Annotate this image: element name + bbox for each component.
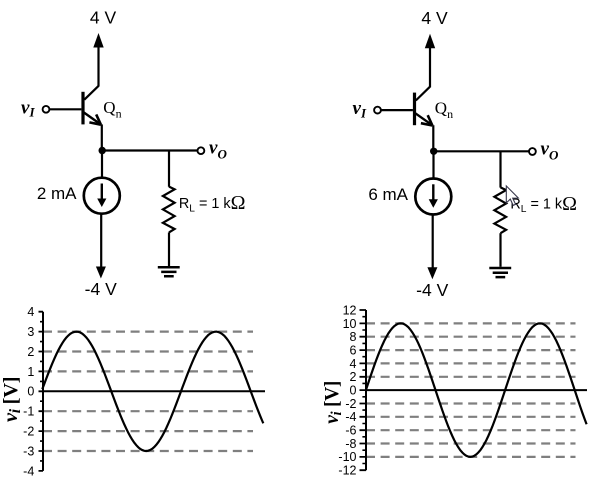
wire resistor to ground: [168, 232, 170, 266]
current source arrowhead: [429, 199, 438, 208]
current source arrowhead: [97, 199, 106, 208]
wire node to current source: [432, 151, 434, 179]
wire collector supply arrow: [429, 46, 431, 88]
dashed gridline -2 V: [366, 402, 576, 404]
svg-text:-10: -10: [338, 450, 356, 464]
svg-text:-4 V: -4 V: [416, 280, 448, 300]
svg-text:Qn: Qn: [103, 98, 121, 121]
svg-text:2: 2: [350, 370, 357, 384]
svg-text:vI: vI: [353, 98, 367, 120]
transistor Q emitter arrowhead barbs: [89, 114, 101, 124]
svg-text:-4: -4: [345, 410, 356, 424]
svg-text:-2: -2: [345, 397, 356, 411]
right emitter-follower circuit: [353, 8, 577, 300]
input terminal circle vI: [43, 106, 50, 113]
wire node to current source: [101, 151, 103, 179]
resistor RL zigzag: [494, 187, 506, 233]
y-axis label vi [V]: [0, 377, 24, 422]
svg-text:RL = 1 kΩ: RL = 1 kΩ: [510, 193, 577, 215]
x-axis zero line: [366, 389, 587, 391]
dashed gridline +1 V: [43, 370, 253, 372]
svg-text:4: 4: [350, 357, 357, 371]
svg-text:2 mA: 2 mA: [37, 184, 77, 203]
left input waveform graph: [0, 305, 265, 478]
svg-text:RL = 1 kΩ: RL = 1 kΩ: [179, 192, 246, 214]
svg-text:10: 10: [343, 317, 357, 331]
node junction dot: [99, 147, 106, 154]
svg-text:-8: -8: [345, 437, 356, 451]
svg-text:4: 4: [27, 305, 34, 319]
svg-text:vI: vI: [21, 97, 35, 119]
svg-text:vO: vO: [541, 138, 559, 162]
wire collector supply arrow: [97, 45, 99, 87]
svg-text:vi [V]: vi [V]: [322, 381, 345, 424]
right input waveform graph: [322, 303, 587, 477]
mouse cursor pointer: [506, 186, 518, 206]
wire current source to -4V: [100, 213, 102, 267]
node junction dot: [430, 148, 437, 155]
svg-text:3: 3: [27, 325, 34, 339]
svg-text:vO: vO: [209, 138, 227, 162]
current source arrow shaft: [432, 184, 434, 201]
dashed gridline +6 V: [366, 349, 576, 351]
transistor Q collector diagonal: [84, 86, 98, 100]
wire node to output: [102, 149, 197, 151]
svg-text:4 V: 4 V: [90, 7, 117, 27]
svg-text:2: 2: [27, 345, 34, 359]
svg-text:4 V: 4 V: [421, 8, 448, 28]
wire current source to -4V: [432, 214, 434, 268]
svg-text:-2: -2: [23, 425, 34, 439]
svg-text:-1: -1: [23, 405, 34, 419]
svg-text:6: 6: [350, 343, 357, 357]
dashed gridline +3 V: [43, 331, 253, 333]
svg-text:Qn: Qn: [435, 99, 453, 122]
ground symbol: [489, 268, 511, 277]
arrowhead down to -4V: [96, 267, 106, 279]
sine waveform vi: [42, 332, 263, 451]
wire resistor to ground: [499, 233, 501, 267]
transistor Q emitter arrowhead barbs: [421, 115, 433, 125]
dashed gridline +2 V: [366, 376, 576, 378]
x-axis zero line: [43, 390, 265, 392]
transistor Q emitter diagonal: [415, 113, 432, 125]
transistor Q base bar: [413, 93, 416, 126]
wire base: [50, 108, 82, 110]
left emitter-follower circuit: [21, 7, 245, 299]
y-axis major ticks: [360, 310, 367, 470]
svg-text:0: 0: [350, 384, 357, 398]
dashed gridline +2 V: [43, 350, 253, 352]
input terminal circle vI: [374, 107, 381, 114]
wire emitter to node: [101, 124, 103, 151]
svg-text:0: 0: [27, 385, 34, 399]
sine waveform vi: [366, 323, 586, 457]
current source arrow shaft: [101, 184, 103, 201]
transistor Q base bar: [81, 92, 84, 125]
ground symbol: [158, 267, 180, 276]
dashed gridline -6 V: [366, 429, 576, 431]
dashed gridline -10 V: [366, 456, 576, 458]
transistor Q emitter diagonal: [84, 112, 101, 124]
svg-text:8: 8: [350, 330, 357, 344]
dashed gridline -2 V: [43, 430, 253, 432]
dashed gridline +4 V: [366, 362, 576, 364]
svg-text:-4: -4: [23, 464, 34, 478]
output terminal circle vO: [529, 148, 536, 155]
wire node to output: [434, 150, 529, 152]
dashed gridline -3 V: [43, 450, 253, 452]
y-axis minor ticks: [362, 317, 366, 464]
y-axis major ticks: [39, 312, 44, 471]
dashed gridline -1 V: [43, 410, 253, 412]
svg-text:-12: -12: [338, 464, 356, 478]
svg-text:12: 12: [343, 303, 357, 317]
svg-text:-3: -3: [23, 444, 34, 458]
resistor RL zigzag: [163, 187, 175, 233]
wire output to resistor RL: [168, 151, 170, 187]
y-axis label vi [V]: [322, 381, 345, 424]
y-axis line: [42, 312, 44, 471]
arrowhead down to -4V: [427, 267, 437, 279]
dashed gridline -4 V: [366, 416, 576, 418]
svg-text:-6: -6: [345, 424, 356, 438]
svg-text:-4 V: -4 V: [85, 279, 117, 299]
arrowhead up to +4V: [93, 33, 103, 48]
wire emitter to node: [432, 125, 434, 152]
dashed gridline -8 V: [366, 442, 576, 444]
wire base: [381, 109, 413, 111]
svg-text:6 mA: 6 mA: [368, 185, 408, 204]
svg-text:1: 1: [27, 365, 34, 379]
arrowhead up to +4V: [425, 34, 435, 49]
svg-text:vi [V]: vi [V]: [0, 377, 24, 422]
output terminal circle vO: [198, 147, 205, 154]
transistor Q collector diagonal: [416, 87, 430, 101]
dashed gridline +10 V: [366, 322, 576, 324]
wire output to resistor RL: [499, 151, 501, 187]
y-axis minor ticks: [40, 322, 43, 461]
dashed gridline +8 V: [366, 336, 576, 338]
current source circle: [84, 178, 120, 214]
current source circle: [415, 179, 451, 215]
y-axis line: [365, 310, 367, 470]
